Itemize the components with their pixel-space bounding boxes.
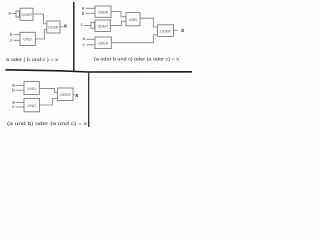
svg-text:a: a [8, 11, 11, 16]
gate U7 UND [126, 13, 140, 26]
svg-text:UND: UND [27, 86, 36, 91]
input rectangle on U5 [91, 22, 95, 28]
wire c to U6 [87, 44, 96, 46]
wire U1 to U3 [33, 14, 47, 24]
panel divider vertical line right of bottom panel [88, 72, 90, 127]
svg-text:a oder ( b und c ) = x: a oder ( b und c ) = x [6, 57, 59, 62]
panel divider vertical line [73, 2, 75, 72]
wire U10 to U11 [40, 99, 58, 105]
wire a to U4 [86, 7, 96, 9]
gate U9 UND [24, 82, 39, 95]
gate U4 ODER [95, 6, 111, 17]
wire b to U4 [86, 12, 96, 14]
panel divider horizontal line [6, 70, 193, 72]
svg-text:UND: UND [28, 103, 37, 108]
wire b to U9 [16, 89, 24, 91]
svg-text:UND: UND [23, 37, 32, 42]
wire c to U5 [84, 24, 91, 26]
gate U10 UND [24, 98, 40, 111]
wire U7 to U8 [140, 18, 158, 27]
wire U11 output [73, 94, 75, 96]
wire a to U10 [16, 101, 24, 103]
svg-text:ODER: ODER [60, 92, 71, 97]
input rectangle on U1 [16, 11, 19, 17]
wire U4 to U7 [111, 12, 126, 17]
wire c to U2 [14, 39, 20, 41]
gate U5 ODER [95, 20, 110, 32]
wire U6 to U8 [111, 35, 157, 43]
wire U2 to U3 [35, 30, 47, 40]
svg-text:ODER: ODER [98, 41, 109, 46]
wire U9 to U11 [39, 89, 57, 93]
wire U3 output [60, 26, 64, 28]
svg-text:(a oder b und c) oder (a oder: (a oder b und c) oder (a oder c) = x [94, 57, 180, 62]
wire a to U6 [87, 38, 96, 40]
wire U5 to U7 [110, 21, 126, 25]
svg-text:ODER: ODER [160, 28, 171, 33]
gate U1 ODER [20, 8, 33, 20]
gate U6 ODER [95, 37, 111, 49]
wire U8 output [174, 29, 178, 31]
gate U11 ODER [58, 88, 73, 101]
svg-text:ODER: ODER [97, 24, 108, 29]
svg-text:UND: UND [129, 17, 138, 22]
gate U3 ODER [47, 21, 60, 33]
svg-text:b: b [12, 87, 15, 92]
wire c to U10 [16, 106, 24, 108]
svg-text:b: b [10, 32, 13, 37]
wire a to U9 [16, 84, 24, 86]
svg-text:b: b [82, 11, 85, 16]
svg-text:a: a [82, 6, 85, 11]
svg-text:a: a [83, 36, 86, 41]
wire b to U2 [14, 34, 20, 36]
svg-text:ODER: ODER [48, 25, 59, 30]
gate U2 UND [20, 32, 35, 45]
svg-text:(a und b) oder (a und c) = x: (a und b) oder (a und c) = x [7, 121, 88, 126]
gate U8 ODER [158, 25, 174, 37]
svg-text:ODER: ODER [21, 12, 32, 17]
wire a to U1 [12, 13, 16, 15]
svg-text:ODER: ODER [98, 10, 109, 15]
